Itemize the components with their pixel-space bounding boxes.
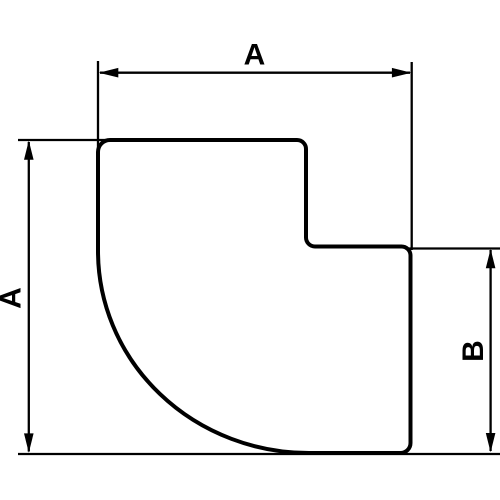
svg-text:A: A: [0, 287, 28, 309]
svg-text:A: A: [244, 39, 266, 72]
svg-text:B: B: [457, 340, 490, 362]
